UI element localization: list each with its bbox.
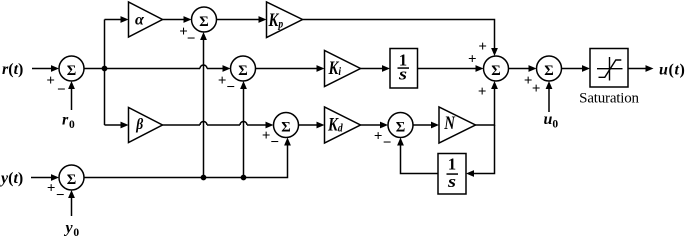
svg-text:+: + — [374, 128, 383, 144]
arrowhead into S3 bottom — [284, 138, 291, 146]
svg-text:u(t): u(t) — [659, 62, 685, 79]
summer S4 — [388, 113, 413, 138]
summer S7 — [537, 56, 562, 81]
summer S6 (main) — [484, 56, 509, 81]
svg-text:+: + — [468, 52, 477, 68]
wire alpha to S1t — [163, 19, 187, 21]
svg-text:Σ: Σ — [238, 63, 247, 79]
junction dot feedback row 1 — [201, 175, 207, 181]
svg-text:1: 1 — [448, 154, 456, 173]
arrowhead into S6 bottom — [491, 81, 498, 89]
arrowhead into S1t — [184, 16, 192, 23]
gain Kd — [325, 107, 361, 143]
wire y(t) input — [31, 177, 53, 179]
arrowhead into S2 bottom — [240, 81, 247, 89]
svg-text:+: + — [46, 73, 55, 89]
arrowhead into S4 — [380, 122, 388, 129]
svg-text:Σ: Σ — [67, 63, 76, 79]
svg-text:+: + — [262, 128, 271, 144]
svg-text:r(t): r(t) — [2, 61, 23, 78]
svg-text:+: + — [47, 180, 56, 196]
wire to alpha — [105, 19, 124, 21]
gain alpha — [129, 2, 163, 37]
wire S3 to Kd — [299, 124, 320, 126]
wire vertical branch left — [104, 20, 106, 126]
gain Kp — [267, 2, 303, 38]
svg-text:−: − — [57, 82, 66, 98]
arrowhead into S5 bottom (y0) — [68, 190, 75, 198]
wire S1 to S2 with hop — [84, 65, 225, 68]
junction dot feedback row 2 — [241, 175, 247, 181]
gain Ki — [325, 51, 361, 87]
wire derivative integrator to S4 bottom — [401, 144, 439, 174]
wire S4 to N — [413, 124, 434, 126]
arrowhead into S7 bottom (u0) — [546, 81, 553, 89]
wire N output to S6 bottom — [476, 88, 495, 126]
wire r0 input — [71, 88, 73, 111]
wire vertical to S1t minus — [203, 39, 205, 178]
wire r(t) input — [32, 68, 53, 70]
fraction bar derivative integrator — [447, 173, 459, 175]
svg-text:s: s — [447, 173, 456, 192]
summer S1t (top) — [192, 7, 217, 32]
svg-text:+: + — [478, 84, 487, 100]
arrowhead into S7 — [529, 65, 537, 72]
wire S1t to Kp — [217, 19, 262, 21]
wire Kd to S4 — [361, 124, 383, 126]
svg-text:−: − — [383, 135, 392, 151]
wire Kp to S6 top — [303, 20, 495, 51]
arrowhead into Kp — [259, 16, 267, 23]
wire vertical to S2 minus — [243, 88, 245, 178]
arrowhead into S1 bottom (r0) — [68, 81, 75, 89]
svg-text:y(t): y(t) — [0, 170, 23, 187]
svg-text:+: + — [532, 81, 541, 97]
svg-text:Σ: Σ — [199, 14, 208, 30]
wire S6 to S7 — [509, 68, 532, 70]
saturation block — [590, 49, 628, 88]
integrator 1/s — [390, 49, 418, 89]
wire Ki to integrator — [361, 68, 385, 70]
arrowhead into S4 bottom — [397, 138, 404, 146]
svg-text:Σ: Σ — [491, 63, 500, 79]
arrowhead into derivative integrator — [466, 170, 474, 177]
svg-text:+: + — [218, 73, 227, 89]
svg-text:N: N — [443, 113, 455, 134]
wire y0 input — [71, 197, 73, 217]
summer S5 (y input) — [59, 165, 84, 190]
gain N — [439, 107, 476, 143]
integrator 1/s (derivative filter) — [438, 154, 466, 195]
wire N output down to derivative integrator — [473, 125, 495, 174]
arrowhead into S1 — [51, 65, 59, 72]
svg-text:β: β — [135, 116, 143, 133]
fraction bar integrator — [398, 67, 410, 69]
junction dot at r branch — [102, 66, 108, 72]
svg-text:Σ: Σ — [67, 172, 76, 188]
wire S2 to Ki — [256, 68, 320, 70]
arrowhead into S6 top — [491, 48, 498, 56]
saturation icon axes — [597, 57, 623, 81]
svg-text:α: α — [135, 12, 145, 29]
saturation icon curve — [599, 60, 622, 77]
svg-text:−: − — [56, 187, 65, 203]
summer S1 (r input) — [59, 56, 84, 81]
arrowhead into Kd — [317, 122, 325, 129]
svg-text:−: − — [270, 134, 279, 150]
arrowhead into S2 — [223, 65, 231, 72]
arrowhead into integrator — [382, 65, 390, 72]
svg-text:Saturation: Saturation — [579, 91, 639, 107]
wire S7 to saturation — [562, 68, 585, 70]
arrowhead into Ki — [317, 65, 325, 72]
gain beta — [129, 108, 163, 143]
svg-text:Σ: Σ — [281, 119, 290, 135]
arrowhead into S1t bottom — [200, 32, 207, 40]
svg-text:Σ: Σ — [544, 63, 553, 79]
arrowhead into S6 left — [476, 65, 484, 72]
summer S2 — [231, 56, 256, 81]
svg-text:−: − — [187, 31, 196, 47]
arrowhead into S5 — [51, 174, 59, 181]
svg-text:−: − — [226, 79, 235, 95]
arrowhead into saturation — [582, 65, 590, 72]
svg-text:Σ: Σ — [396, 119, 405, 135]
wire saturation to u(t) — [628, 68, 648, 70]
wire beta to S3 with hops — [163, 122, 269, 126]
wire u0 input — [548, 88, 550, 113]
wire integrator to S6 — [418, 68, 479, 70]
arrowhead into S3 — [266, 122, 274, 129]
arrowhead to u(t) — [646, 65, 654, 72]
arrowhead into alpha — [121, 16, 129, 23]
summer S3 — [274, 113, 299, 138]
arrowhead into beta — [121, 122, 129, 129]
arrowhead into N — [431, 122, 439, 129]
wire to beta — [105, 124, 124, 126]
wire S5 feedback row to S3 bottom — [84, 144, 288, 178]
svg-text:+: + — [478, 39, 487, 55]
